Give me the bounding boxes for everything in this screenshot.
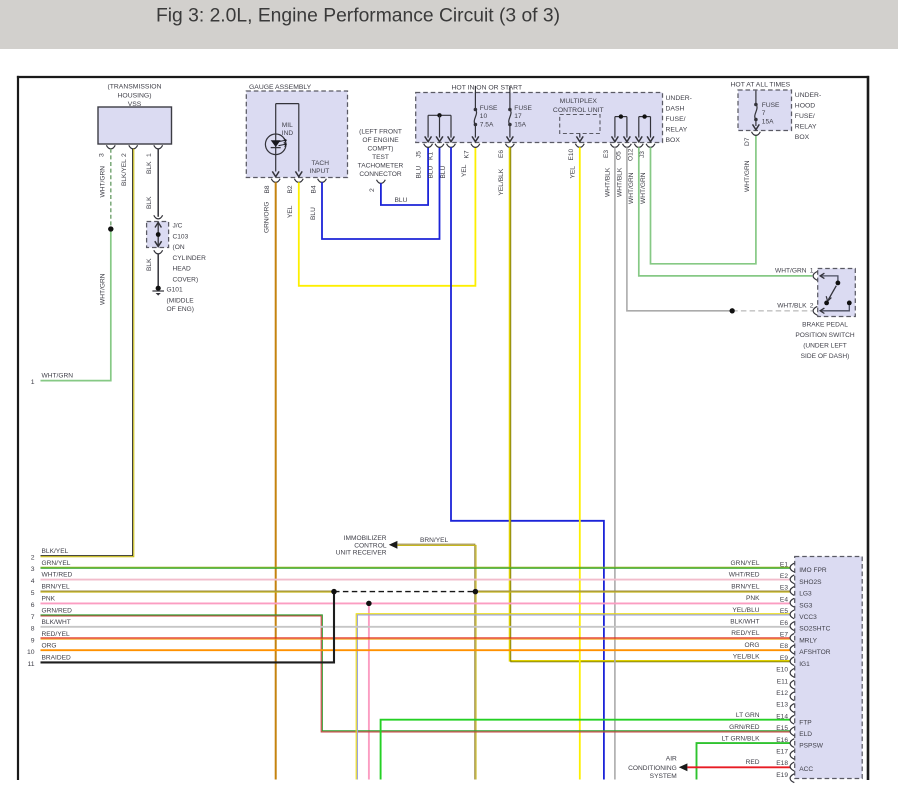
svg-text:HEAD: HEAD: [173, 266, 192, 273]
svg-text:MIL: MIL: [282, 122, 293, 129]
svg-text:GRN/RED: GRN/RED: [729, 724, 760, 731]
svg-text:E18: E18: [776, 760, 788, 767]
svg-text:MULTIPLEX: MULTIPLEX: [560, 98, 598, 105]
svg-text:(ON: (ON: [173, 244, 185, 251]
row 5 wire BRN/YEL to splice: [41, 590, 335, 592]
svg-text:E14: E14: [776, 713, 788, 720]
svg-text:LT GRN/BLK: LT GRN/BLK: [722, 736, 760, 743]
wire BLU from B4 to fuse-box K1: [322, 147, 440, 239]
wire BLK from VSS pin 1: [157, 149, 159, 217]
svg-text:GRN/YEL: GRN/YEL: [731, 560, 760, 567]
svg-text:GAUGE ASSEMBLY: GAUGE ASSEMBLY: [249, 84, 312, 91]
svg-text:1: 1: [146, 153, 153, 157]
svg-text:RELAY: RELAY: [666, 127, 688, 134]
svg-text:SIDE OF DASH): SIDE OF DASH): [801, 353, 850, 360]
svg-text:15A: 15A: [762, 118, 774, 125]
svg-text:E19: E19: [776, 772, 788, 779]
fuse 17 15A: [509, 86, 511, 108]
wire LT GRN to PCM E14: [381, 720, 791, 780]
svg-text:BLK/WHT: BLK/WHT: [730, 619, 759, 626]
row 11 braided shield wire: [41, 592, 335, 663]
svg-text:FUSE: FUSE: [514, 105, 532, 112]
svg-text:7: 7: [31, 614, 35, 621]
svg-text:FUSE/: FUSE/: [795, 113, 815, 120]
wire BLK/YEL from VSS pin 2 to left edge row 2: [41, 149, 133, 556]
svg-text:E10: E10: [568, 148, 575, 160]
svg-text:2: 2: [369, 188, 376, 192]
PCM pin E5: [790, 610, 794, 619]
wire BRN/YEL to PCM E3: [475, 590, 790, 592]
svg-text:B8: B8: [264, 185, 271, 193]
MIL indicator lamp (LED): [265, 134, 286, 155]
fuse-box jumper O12-J3: [639, 116, 651, 118]
svg-text:E17: E17: [776, 749, 788, 756]
svg-text:(LEFT FRONT: (LEFT FRONT: [359, 129, 402, 136]
svg-text:WHT/GRN: WHT/GRN: [99, 273, 106, 305]
svg-text:FTP: FTP: [799, 719, 812, 726]
fuse-box pin K7: [471, 144, 480, 148]
svg-text:WHT/GRN: WHT/GRN: [640, 172, 647, 204]
svg-text:FUSE/: FUSE/: [666, 116, 686, 123]
svg-text:RED: RED: [746, 759, 760, 766]
svg-text:HOOD: HOOD: [795, 103, 815, 110]
wire WHT/GRN from fuse-box O12 to brake pedal switch pin 1: [639, 147, 813, 276]
svg-text:Fig 3: 2.0L, Engine Performanc: Fig 3: 2.0L, Engine Performance Circuit …: [156, 5, 560, 26]
wire BRN/YEL from immobilizer down: [397, 544, 474, 779]
PCM pin E1: [790, 563, 794, 572]
row 10 wire ORG to PCM E8: [41, 649, 791, 651]
row 7 wire GRN/RED to PCM E15: [41, 615, 791, 731]
fuse-box pin E10: [575, 144, 584, 148]
svg-text:E12: E12: [776, 690, 788, 697]
svg-text:YEL/BLU: YEL/BLU: [732, 607, 759, 614]
svg-text:1: 1: [31, 379, 35, 386]
svg-text:J3: J3: [639, 151, 646, 158]
svg-text:FUSE: FUSE: [480, 105, 498, 112]
svg-text:WHT/GRN: WHT/GRN: [775, 268, 807, 275]
svg-text:BRAIDED: BRAIDED: [42, 654, 72, 661]
svg-text:E13: E13: [776, 702, 788, 709]
svg-text:E11: E11: [777, 678, 789, 685]
gauge internal circuit MIL IND: [276, 103, 299, 105]
svg-text:2: 2: [810, 303, 814, 310]
PCM pin E12: [790, 692, 794, 701]
svg-text:O5: O5: [616, 151, 623, 160]
svg-text:J/C: J/C: [173, 223, 183, 230]
svg-text:WHT/GRN: WHT/GRN: [99, 166, 106, 198]
wire RED to PCM E18: [687, 766, 790, 768]
svg-text:(UNDER LEFT: (UNDER LEFT: [803, 343, 847, 350]
fuse-box pin (third BLU): [447, 144, 456, 148]
wire BLU from fuse box third pin, jog to bottom: [451, 147, 604, 779]
junction dots redrawn on top: [331, 589, 336, 594]
PCM pin E11: [790, 680, 794, 689]
svg-text:CONTROL UNIT: CONTROL UNIT: [553, 107, 604, 114]
svg-text:ORG: ORG: [42, 643, 57, 650]
PCM pin E19: [790, 774, 794, 783]
svg-text:10: 10: [480, 113, 488, 120]
splice node row 5 / braided shield: [331, 589, 336, 594]
svg-text:FUSE: FUSE: [762, 102, 780, 109]
splice node BRN/YEL vertical: [473, 589, 478, 594]
brake switch pin 2: [813, 306, 817, 315]
svg-text:POSITION SWITCH: POSITION SWITCH: [795, 332, 855, 339]
wire WHT/BLK from fuse-box E3 down: [614, 147, 616, 779]
svg-text:E8: E8: [780, 643, 788, 650]
svg-text:17: 17: [514, 113, 522, 120]
PCM pin E3: [790, 587, 794, 596]
svg-text:WHT/GRN: WHT/GRN: [628, 172, 635, 204]
svg-text:E4: E4: [780, 596, 788, 603]
splice node PNK: [366, 601, 371, 606]
PCM pin E4: [790, 598, 794, 607]
svg-text:BLK: BLK: [146, 196, 153, 209]
svg-text:IND: IND: [282, 130, 294, 137]
svg-text:B4: B4: [310, 185, 317, 193]
svg-text:TACHOMETER: TACHOMETER: [358, 163, 404, 170]
svg-text:O12: O12: [627, 148, 634, 161]
PCM pin E9: [790, 657, 794, 666]
fuse 10 7.5A: [474, 86, 476, 108]
PCM connector E (engine control module): [795, 557, 863, 779]
wire BLU from tach pin 2 to fuse-box J5: [381, 147, 428, 205]
PCM pin E15: [790, 727, 794, 736]
svg-text:HOT IN ON OR START: HOT IN ON OR START: [452, 85, 523, 92]
row 3 wire GRN/YEL to PCM E1: [41, 566, 791, 568]
fuse-box jumper E3-O5: [615, 116, 627, 118]
PCM pin E10: [790, 669, 794, 678]
svg-text:BRAKE PEDAL: BRAKE PEDAL: [802, 322, 848, 329]
VSS pin 2: [129, 145, 138, 149]
svg-text:BLU: BLU: [416, 165, 423, 178]
svg-text:OF ENG): OF ENG): [167, 306, 194, 313]
svg-text:K1: K1: [427, 152, 434, 160]
gauge pin B4: [318, 179, 327, 183]
svg-text:E7: E7: [780, 632, 788, 639]
svg-text:C103: C103: [173, 233, 189, 240]
svg-text:LT GRN: LT GRN: [736, 712, 760, 719]
svg-text:RED/YEL: RED/YEL: [731, 630, 760, 637]
svg-text:E10: E10: [776, 667, 788, 674]
dashed shield link: [334, 591, 475, 593]
svg-text:G101: G101: [167, 287, 183, 294]
fuse-box pin O5: [623, 144, 632, 148]
brake switch internals: [820, 276, 838, 281]
fuse-box pin E3: [611, 144, 620, 148]
VSS pin 3: [106, 145, 115, 149]
svg-text:WHT/BLK: WHT/BLK: [777, 303, 807, 310]
svg-text:3: 3: [31, 566, 35, 573]
wire YEL/BLU to PCM E5: [356, 614, 790, 780]
svg-text:SYSTEM: SYSTEM: [650, 773, 677, 780]
fuse-box pin J3: [646, 144, 655, 148]
svg-text:BLK/YEL: BLK/YEL: [42, 548, 69, 555]
PCM pin E16: [790, 739, 794, 748]
svg-text:RED/YEL: RED/YEL: [42, 631, 71, 638]
svg-text:VCC3: VCC3: [799, 614, 817, 621]
VSS connector block: [98, 107, 172, 144]
wire WHT/GRN dashed from VSS pin 3: [110, 149, 112, 229]
svg-text:BOX: BOX: [795, 134, 810, 141]
svg-text:LG3: LG3: [799, 591, 812, 598]
svg-text:TACH: TACH: [312, 160, 330, 167]
svg-text:D7: D7: [744, 137, 751, 146]
under-hood pin D7: [752, 132, 761, 136]
tach connector pin 2: [377, 180, 386, 184]
svg-text:2: 2: [31, 555, 35, 562]
fuse-box pin E6: [506, 144, 515, 148]
svg-text:GRN/RED: GRN/RED: [42, 607, 73, 614]
svg-text:(MIDDLE: (MIDDLE: [167, 297, 195, 304]
PCM pin E18: [790, 762, 794, 771]
svg-text:GRN/ORG: GRN/ORG: [264, 201, 271, 233]
svg-text:PNK: PNK: [746, 595, 760, 602]
wire BLK from C103 to ground: [157, 254, 159, 286]
fuse 7 15A: [755, 91, 757, 103]
svg-text:WHT/RED: WHT/RED: [729, 572, 760, 579]
svg-text:AFSHTOR: AFSHTOR: [799, 649, 831, 656]
svg-text:UNDER-: UNDER-: [666, 95, 692, 102]
svg-text:YEL: YEL: [461, 164, 468, 177]
svg-text:ACC: ACC: [799, 766, 813, 773]
svg-text:BRN/YEL: BRN/YEL: [731, 583, 760, 590]
svg-text:J5: J5: [416, 151, 423, 158]
svg-text:CONTROL: CONTROL: [354, 542, 387, 549]
svg-text:COMPT): COMPT): [367, 146, 393, 153]
wire PNK vertical to bottom: [368, 603, 370, 779]
PCM pin E8: [790, 645, 794, 654]
PCM pin E13: [790, 704, 794, 713]
svg-text:TEST: TEST: [372, 154, 389, 161]
svg-text:E9: E9: [780, 655, 788, 662]
svg-text:CYLINDER: CYLINDER: [173, 255, 207, 262]
svg-text:YEL: YEL: [287, 205, 294, 218]
svg-text:UNIT RECEIVER: UNIT RECEIVER: [336, 550, 387, 557]
svg-text:4: 4: [31, 578, 35, 585]
svg-text:E6: E6: [498, 150, 505, 158]
svg-text:CONNECTOR: CONNECTOR: [359, 171, 402, 178]
svg-text:BLK: BLK: [146, 161, 153, 174]
title bar: [0, 0, 898, 49]
svg-text:HOUSING): HOUSING): [118, 92, 152, 99]
svg-text:15A: 15A: [514, 122, 526, 129]
brake switch pin 1: [813, 272, 817, 281]
svg-text:SG3: SG3: [799, 602, 813, 609]
gauge pin B8: [271, 179, 280, 183]
svg-text:SO2SHTC: SO2SHTC: [799, 626, 830, 633]
svg-text:WHT/GRN: WHT/GRN: [42, 373, 74, 380]
svg-text:GRN/YEL: GRN/YEL: [42, 560, 71, 567]
svg-text:E5: E5: [780, 608, 788, 615]
junction node on WHT/GRN: [108, 226, 113, 231]
fuse-box internal bus to J5/K1 pins: [428, 114, 451, 116]
svg-text:K7: K7: [464, 150, 471, 158]
wire GRN/ORG from B8 down: [275, 182, 277, 779]
svg-text:DASH: DASH: [666, 106, 685, 113]
svg-text:6: 6: [31, 602, 35, 609]
svg-text:BLK/YEL: BLK/YEL: [121, 159, 128, 186]
fuse-box pin J5: [424, 144, 433, 148]
svg-text:BRN/YEL: BRN/YEL: [420, 537, 449, 544]
PCM pin E14: [790, 715, 794, 724]
svg-text:BLK/WHT: BLK/WHT: [42, 619, 71, 626]
PCM pin E7: [790, 633, 794, 642]
svg-text:BLU: BLU: [395, 197, 408, 204]
PCM pin E2: [790, 575, 794, 584]
svg-text:MRLY: MRLY: [799, 637, 817, 644]
wire WHT/GRN to left edge row 1: [41, 229, 111, 381]
svg-text:ELD: ELD: [799, 731, 812, 738]
wire WHT/GRN from fuse-box J3 up to under-hood D7: [651, 135, 756, 264]
svg-text:INPUT: INPUT: [310, 168, 330, 175]
row 9 wire RED/YEL to PCM E7: [41, 637, 791, 639]
svg-text:10: 10: [27, 649, 35, 656]
svg-text:11: 11: [27, 661, 34, 668]
svg-text:HOT AT ALL TIMES: HOT AT ALL TIMES: [731, 81, 791, 88]
diagram frame border: [17, 76, 869, 78]
ground G101: [156, 286, 161, 291]
svg-text:IG1: IG1: [799, 661, 810, 668]
svg-text:CONDITIONING: CONDITIONING: [628, 765, 677, 772]
svg-text:E3: E3: [603, 150, 610, 158]
svg-text:9: 9: [31, 637, 35, 644]
svg-text:7.5A: 7.5A: [480, 122, 494, 129]
svg-text:AIR: AIR: [666, 755, 677, 762]
svg-text:ORG: ORG: [744, 642, 759, 649]
wire WHT/BLK from fuse-box O5 to brake pedal switch pin 2: [627, 147, 732, 311]
svg-text:BRN/YEL: BRN/YEL: [42, 583, 71, 590]
svg-text:BLU: BLU: [440, 165, 447, 178]
row 8 wire BLK/WHT to PCM E6: [41, 626, 791, 628]
svg-text:YEL/BLK: YEL/BLK: [498, 168, 505, 195]
svg-text:E6: E6: [780, 620, 788, 627]
svg-text:E15: E15: [776, 725, 788, 732]
svg-text:(TRANSMISSION: (TRANSMISSION: [107, 84, 161, 91]
svg-text:E1: E1: [780, 561, 788, 568]
wire LT GRN/BLK to PCM E16: [697, 743, 791, 779]
PCM pin E6: [790, 622, 794, 631]
J/C C103 junction connector: [154, 215, 163, 219]
svg-text:BLU: BLU: [427, 165, 434, 178]
svg-text:3: 3: [99, 153, 106, 157]
svg-text:WHT/GRN: WHT/GRN: [744, 160, 751, 192]
svg-text:IMMOBILIZER: IMMOBILIZER: [344, 535, 387, 542]
wire YEL/BLK from fuse-box E6 down to PCM E9: [510, 147, 791, 661]
svg-text:E3: E3: [780, 585, 788, 592]
svg-text:RELAY: RELAY: [795, 124, 817, 131]
svg-text:2: 2: [121, 153, 128, 157]
svg-text:BLU: BLU: [310, 207, 317, 220]
svg-text:PSPSW: PSPSW: [799, 743, 824, 750]
svg-text:YEL/BLK: YEL/BLK: [733, 654, 760, 661]
VSS pin 1: [154, 145, 163, 149]
fuse-box pin K1: [435, 144, 444, 148]
svg-text:E2: E2: [780, 573, 788, 580]
wire YEL from fuse-box E10 down: [579, 147, 581, 779]
row 6 wire PNK to PCM E4: [41, 602, 791, 604]
svg-text:E16: E16: [776, 737, 788, 744]
svg-text:COVER): COVER): [173, 277, 199, 284]
svg-text:BLK: BLK: [146, 258, 153, 271]
gauge pin B2: [294, 179, 303, 183]
svg-text:8: 8: [31, 626, 35, 633]
svg-text:OF ENGINE: OF ENGINE: [362, 137, 399, 144]
svg-text:IMO FPR: IMO FPR: [799, 567, 827, 574]
svg-text:BOX: BOX: [666, 137, 681, 144]
svg-text:WHT/BLK: WHT/BLK: [604, 167, 611, 197]
wire YEL from B2 to fuse-box K7: [299, 147, 476, 286]
svg-text:WHT/BLK: WHT/BLK: [616, 167, 623, 197]
svg-text:SHO2S: SHO2S: [799, 579, 822, 586]
svg-text:7: 7: [762, 110, 766, 117]
PCM pin E17: [790, 750, 794, 759]
fuse-box pin O12: [634, 144, 643, 148]
svg-text:WHT/RED: WHT/RED: [42, 572, 73, 579]
svg-text:UNDER-: UNDER-: [795, 92, 821, 99]
svg-text:1: 1: [810, 268, 814, 275]
svg-text:YEL: YEL: [570, 166, 577, 179]
svg-text:PNK: PNK: [42, 595, 56, 602]
svg-text:5: 5: [31, 590, 35, 597]
row 4 wire WHT/RED to PCM E2: [41, 579, 791, 581]
svg-text:B2: B2: [287, 185, 294, 193]
